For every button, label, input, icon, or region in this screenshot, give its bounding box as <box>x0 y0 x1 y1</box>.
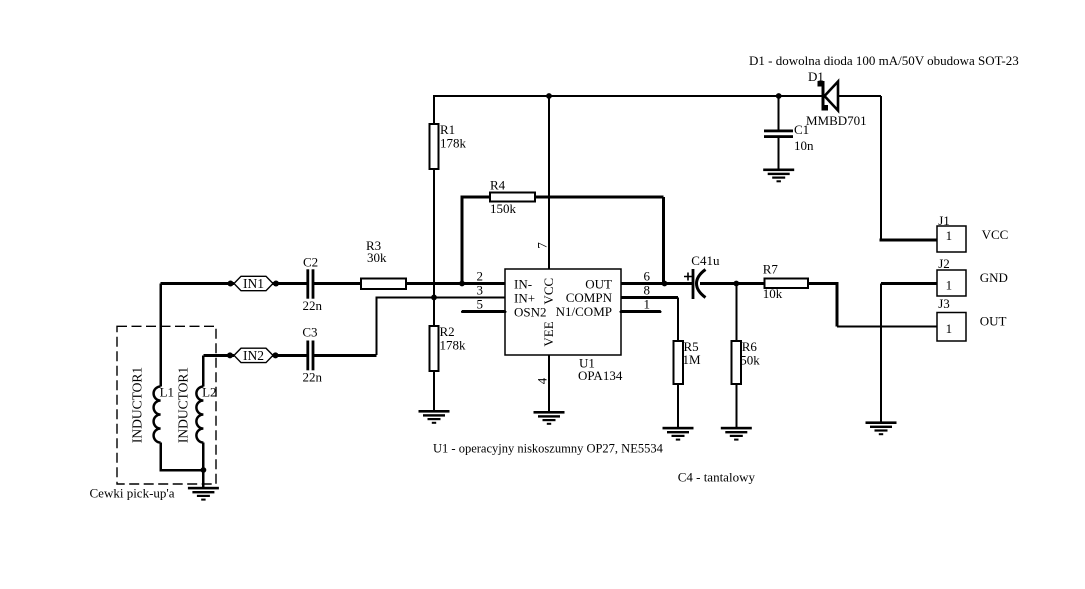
svg-text:C2: C2 <box>303 255 318 270</box>
svg-text:10n: 10n <box>794 138 814 153</box>
svg-text:1M: 1M <box>683 352 702 367</box>
svg-text:4: 4 <box>535 377 550 384</box>
svg-text:L2: L2 <box>202 385 216 400</box>
svg-text:1: 1 <box>946 278 953 293</box>
svg-text:VCC: VCC <box>541 278 556 305</box>
svg-text:150k: 150k <box>490 201 517 216</box>
svg-text:J3: J3 <box>938 296 950 311</box>
svg-text:D1 - dowolna dioda 100 mA/50V: D1 - dowolna dioda 100 mA/50V obudowa SO… <box>749 53 1019 68</box>
svg-text:7: 7 <box>535 242 550 249</box>
svg-text:C1: C1 <box>794 122 809 137</box>
svg-text:IN+: IN+ <box>514 291 535 306</box>
svg-text:N1/COMP: N1/COMP <box>556 304 612 319</box>
svg-text:L1: L1 <box>160 385 174 400</box>
svg-text:Cewki pick-up'a: Cewki pick-up'a <box>90 486 175 501</box>
svg-text:C3: C3 <box>302 325 317 340</box>
svg-text:INDUCTOR1: INDUCTOR1 <box>130 367 145 443</box>
svg-text:OSN2: OSN2 <box>514 305 547 320</box>
svg-text:178k: 178k <box>440 135 467 150</box>
svg-text:6: 6 <box>644 269 651 284</box>
svg-text:2: 2 <box>477 269 484 284</box>
svg-text:3: 3 <box>477 283 484 298</box>
svg-text:C4 - tantalowy: C4 - tantalowy <box>678 470 756 485</box>
svg-text:1: 1 <box>644 297 651 312</box>
svg-text:R7: R7 <box>763 262 779 277</box>
svg-text:OUT: OUT <box>980 313 1007 328</box>
svg-text:COMPN: COMPN <box>566 290 613 305</box>
svg-text:D1: D1 <box>808 69 824 84</box>
svg-text:OPA134: OPA134 <box>578 368 623 383</box>
svg-text:50k: 50k <box>740 353 760 368</box>
svg-text:178k: 178k <box>440 337 467 352</box>
svg-text:10k: 10k <box>763 286 783 301</box>
svg-text:1: 1 <box>946 321 953 336</box>
svg-text:R4: R4 <box>490 177 506 192</box>
svg-text:VEE: VEE <box>541 321 556 346</box>
svg-text:J2: J2 <box>938 256 950 271</box>
svg-text:IN1: IN1 <box>243 276 264 291</box>
svg-text:22n: 22n <box>303 298 323 313</box>
svg-text:30k: 30k <box>367 250 387 265</box>
svg-text:U1 - operacyjny niskoszumny O: U1 - operacyjny niskoszumny OP27, NE5534 <box>433 442 664 456</box>
svg-text:IN2: IN2 <box>243 348 264 363</box>
svg-text:IN-: IN- <box>514 277 532 292</box>
svg-text:J1: J1 <box>938 213 950 228</box>
svg-text:5: 5 <box>477 297 484 312</box>
svg-text:8: 8 <box>644 283 651 298</box>
svg-text:VCC: VCC <box>982 227 1009 242</box>
svg-text:GND: GND <box>980 270 1008 285</box>
svg-text:MMBD701: MMBD701 <box>806 113 867 128</box>
svg-text:22n: 22n <box>303 370 323 385</box>
svg-text:INDUCTOR1: INDUCTOR1 <box>176 367 191 443</box>
svg-text:1: 1 <box>946 228 953 243</box>
svg-text:C41u: C41u <box>691 253 720 268</box>
